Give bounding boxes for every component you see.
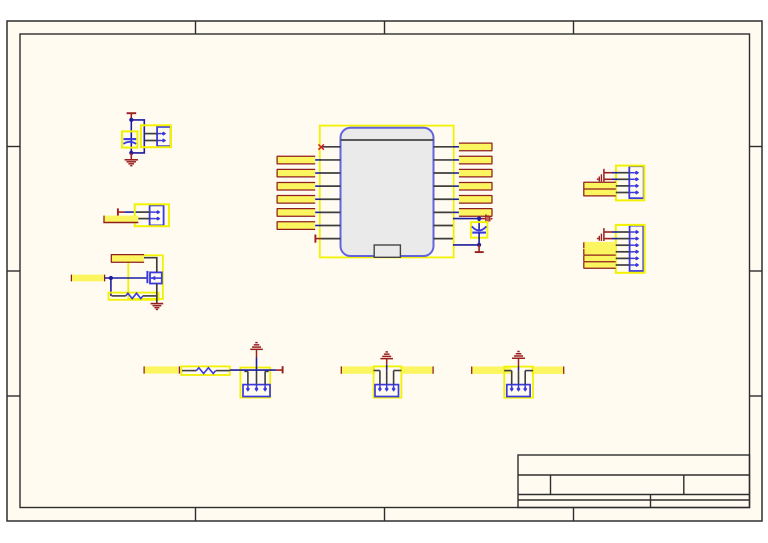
power ground right — [486, 214, 493, 223]
wire — [604, 231, 618, 233]
net label bar — [583, 249, 615, 256]
pin 12 U1 right — [434, 185, 453, 187]
wire — [478, 219, 480, 231]
no-connect X — [318, 144, 324, 149]
wire — [315, 172, 321, 174]
node junction — [477, 243, 481, 247]
wire — [130, 120, 132, 153]
net label bar — [583, 255, 615, 262]
ground GND4 — [380, 352, 393, 370]
component box K2 — [374, 366, 402, 397]
frame zone tick right — [750, 395, 763, 397]
pin 2 K3 — [517, 370, 521, 392]
pin 11 U1 right — [434, 172, 453, 174]
title block divider C — [650, 495, 652, 508]
connector K2 body — [375, 385, 399, 397]
net label bar — [103, 216, 138, 223]
frame zone tick bottom — [384, 508, 386, 522]
component box Q1 — [128, 255, 163, 299]
frame zone tick top — [195, 21, 197, 34]
pin 2 J1 — [145, 139, 166, 143]
wire — [482, 218, 486, 220]
net label bar — [459, 182, 492, 190]
wire — [124, 211, 137, 213]
wire — [315, 198, 321, 200]
power bar down — [475, 245, 484, 252]
net label bar — [459, 156, 492, 164]
pin 1 P1 — [618, 171, 639, 175]
resistor R2 — [181, 366, 230, 375]
resistor R1 — [109, 293, 159, 300]
title block row line 1 — [518, 474, 750, 476]
net label bar — [583, 262, 615, 269]
pin 13 U1 right — [434, 198, 453, 200]
net label bar — [111, 255, 144, 263]
pin 16 U1 right — [434, 238, 453, 240]
net label bar — [277, 156, 316, 164]
wire — [453, 244, 479, 246]
connector K3 body — [507, 385, 530, 397]
capacitor C1 — [122, 131, 137, 147]
pin 1 J2 — [138, 210, 161, 214]
pin 5 U1 left — [321, 198, 341, 200]
pin 1 P2 — [618, 230, 639, 234]
connector J1 — [141, 125, 171, 147]
wire — [110, 278, 112, 296]
pin 1 J1 — [145, 132, 166, 136]
net label bar — [401, 366, 434, 373]
net label bar — [277, 209, 316, 217]
pin 15 U1 right — [434, 224, 453, 226]
frame zone tick left — [7, 270, 20, 272]
pin 2 K1 — [255, 370, 259, 392]
wire — [453, 146, 459, 148]
pin 1 K1 — [244, 371, 250, 391]
pin 2 P2 — [618, 237, 639, 241]
net label border — [583, 255, 615, 268]
net label bar — [583, 182, 615, 196]
node junction — [477, 217, 481, 221]
net label bar — [459, 209, 492, 217]
power bar left — [315, 235, 321, 243]
pin 14 U1 right — [434, 211, 453, 213]
wire — [315, 159, 321, 161]
net label bar — [71, 275, 105, 282]
node junction — [129, 151, 133, 155]
pin 3 U1 left — [321, 172, 341, 174]
title block outline — [518, 455, 750, 508]
component box K3 — [504, 367, 533, 398]
wire — [453, 159, 459, 161]
connector K1 body — [243, 385, 270, 397]
power ground P1 — [597, 169, 604, 182]
pin 4 U1 left — [321, 185, 341, 187]
wire — [453, 218, 482, 220]
connector P2 — [616, 225, 645, 273]
connector J2 — [135, 204, 169, 226]
pin 8 U1 left — [321, 238, 341, 240]
pin 2 P1 — [618, 177, 639, 181]
pin 3 K1 — [263, 371, 269, 391]
net label bar — [341, 366, 375, 373]
wire — [156, 284, 158, 304]
frame zone tick bottom — [195, 508, 197, 522]
net label bar — [144, 366, 180, 373]
wire — [144, 258, 157, 273]
capacitor C2 — [471, 222, 488, 238]
net label bar — [277, 222, 316, 230]
pin 7 U1 left — [321, 224, 341, 226]
frame zone tick top — [573, 21, 575, 34]
wire — [604, 172, 618, 174]
wire — [105, 277, 147, 279]
connector P1 — [616, 166, 644, 201]
wire — [453, 172, 459, 174]
pin 3 K3 — [523, 371, 533, 392]
pin 3 K2 — [392, 371, 402, 392]
frame zone tick right — [750, 146, 763, 148]
pin 1 K2 — [374, 371, 382, 392]
net label bar — [277, 169, 316, 177]
ground GND1 — [125, 153, 138, 166]
net label bar — [459, 143, 492, 151]
net label bar — [471, 367, 511, 374]
wire — [604, 238, 618, 240]
pin 9 U1 right — [434, 146, 453, 148]
node junction — [129, 118, 133, 122]
net label bar — [277, 196, 316, 204]
wire — [604, 178, 618, 180]
power ground P2 — [597, 228, 604, 241]
frame zone tick left — [7, 395, 20, 397]
power bar VCC2 — [118, 208, 124, 215]
pin 4 P2 — [615, 250, 640, 254]
pin 10 U1 right — [434, 159, 453, 161]
ground GND5 — [512, 352, 525, 371]
frame zone tick top — [384, 21, 386, 34]
pin 2 U1 left — [321, 159, 341, 161]
title block divider A — [550, 475, 552, 495]
U1 bottom notch — [374, 245, 400, 257]
title block row line 3 — [518, 499, 750, 501]
title block divider B — [683, 475, 685, 495]
wire — [315, 185, 321, 187]
transistor Q1 — [147, 271, 161, 284]
title block row line 2 — [518, 494, 750, 496]
pin 2 J2 — [138, 217, 161, 221]
wire — [230, 369, 276, 371]
pin 6 U1 left — [321, 211, 341, 213]
ground GND2 — [151, 304, 164, 310]
pin 2 K2 — [385, 370, 389, 392]
wire — [315, 224, 321, 226]
wire — [453, 185, 459, 187]
net label bar — [459, 196, 492, 204]
net label bar — [459, 169, 492, 177]
net label bar — [583, 242, 615, 249]
net label bar — [277, 182, 316, 190]
pin 3 P2 — [615, 243, 640, 247]
pin 4 P1 — [615, 191, 640, 195]
pin 1 K3 — [504, 371, 514, 392]
component box K1 — [240, 368, 270, 398]
wire — [478, 233, 480, 245]
U1 header line — [341, 139, 434, 141]
frame zone tick right — [750, 270, 763, 272]
op-amp U1 body — [341, 128, 434, 256]
pin 6 P2 — [615, 263, 640, 267]
frame zone tick left — [7, 146, 20, 148]
pin 5 P2 — [615, 256, 640, 260]
pin 1 U1 left — [321, 146, 341, 148]
power bar right — [276, 366, 283, 373]
wire — [131, 120, 144, 153]
net label bar — [531, 367, 564, 374]
wire — [453, 211, 459, 213]
pin 3 P1 — [615, 184, 640, 188]
wire — [453, 198, 459, 200]
power bar VCC1 — [127, 113, 137, 120]
component box U1 — [320, 126, 454, 258]
wire — [315, 211, 321, 213]
frame zone tick bottom — [573, 508, 575, 522]
ground GND3 — [250, 343, 263, 371]
node junction — [109, 276, 113, 280]
